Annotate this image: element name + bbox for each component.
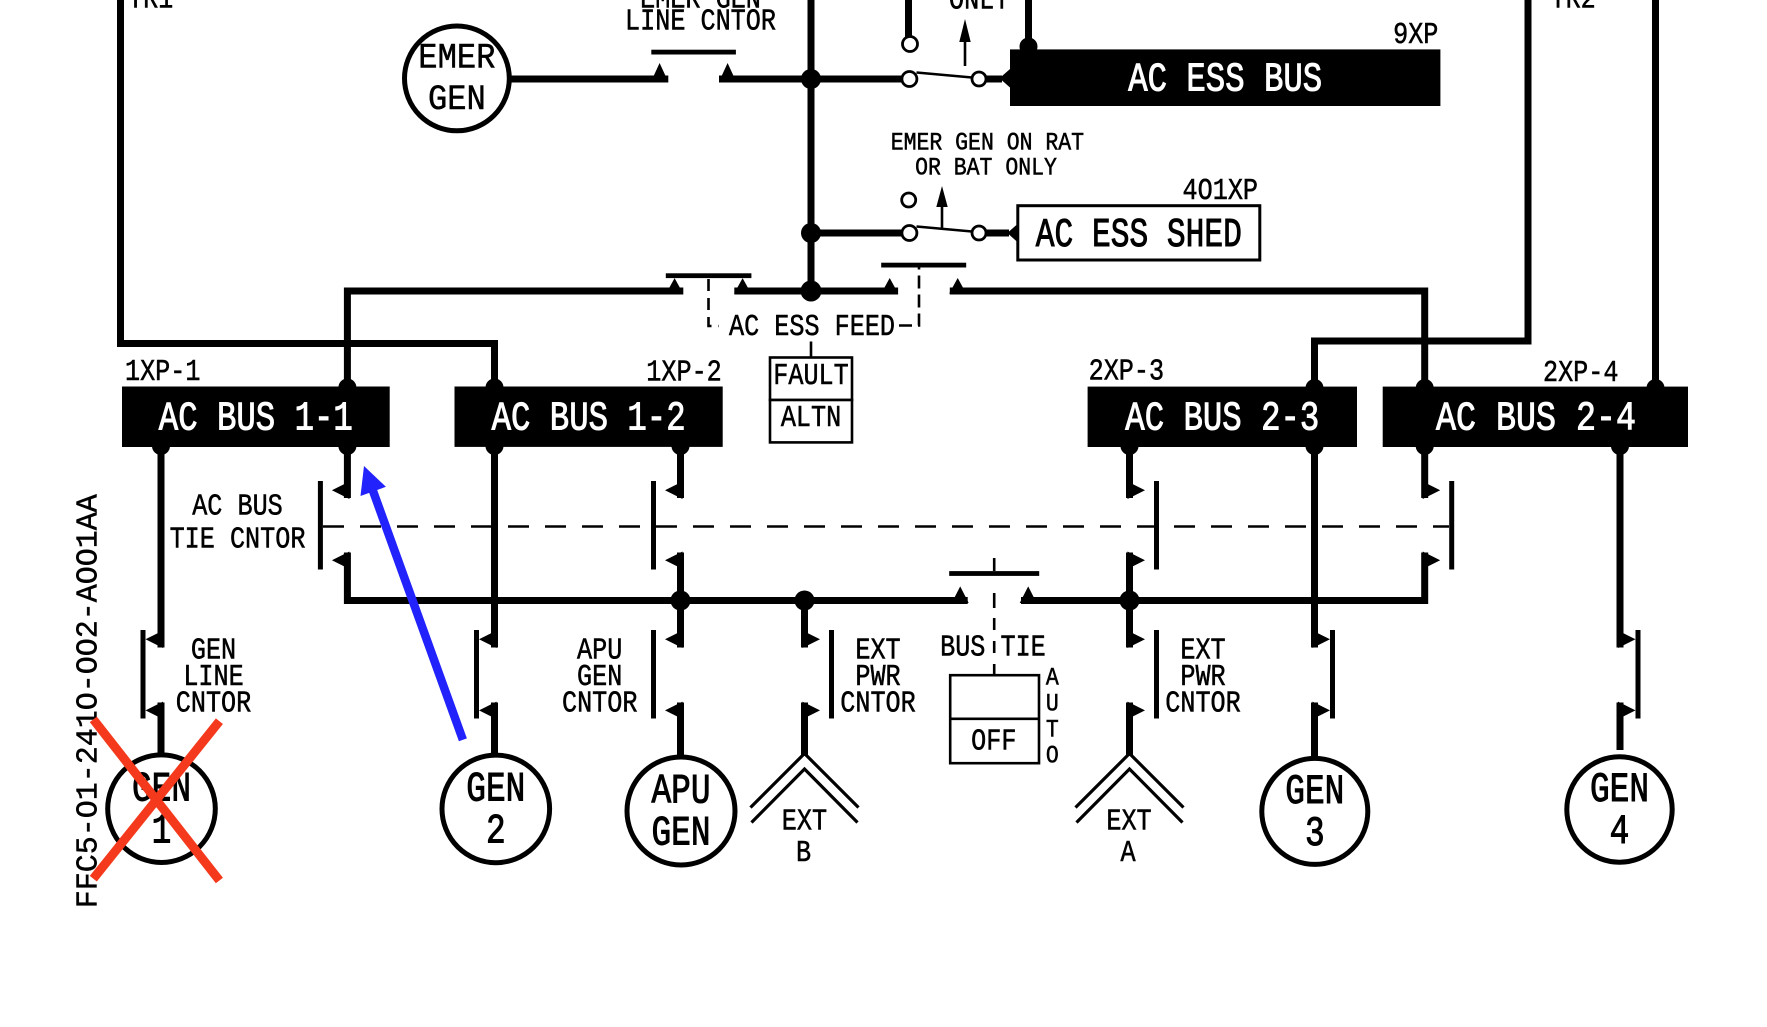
svg-text:4O1XP: 4O1XP	[1183, 175, 1258, 209]
dashed bus tie control line	[323, 525, 1449, 528]
dashed BUS TIE selector drop	[993, 558, 996, 674]
label document number (vertical)	[72, 493, 106, 908]
EXT PWR B receptacle	[751, 754, 859, 823]
label 2XP-4	[1543, 357, 1618, 391]
svg-text:1XP-1: 1XP-1	[125, 356, 200, 390]
node EMER GEN junction	[801, 69, 821, 89]
wire GEN 4 drop	[1617, 447, 1624, 750]
leader FAULT box	[810, 342, 813, 358]
label EXT PWR CNTOR A	[1165, 635, 1241, 722]
contactor AC ESS FEED ALTN (open)	[881, 263, 966, 294]
node bus bottom tap 347.4	[338, 437, 356, 455]
arrow switch direction up (BAT)	[959, 19, 970, 66]
wire switch to AC ESS BUS	[986, 76, 1002, 83]
annotation blue arrow to AC BUS TIE CNTOR 1	[361, 466, 463, 740]
label TR1	[128, 0, 173, 17]
label AUTO vertical	[1046, 664, 1059, 770]
node AC ESS SHED tap	[801, 223, 821, 243]
contactor AC BUS TIE CNTOR 3 (open)	[1128, 481, 1160, 570]
svg-text:EXT: EXT	[782, 805, 827, 839]
label BUS TIE	[940, 632, 1046, 666]
wire TR2 right feeder to AC BUS 2-4	[1652, 0, 1659, 390]
wire TR1 feeder to AC BUS 1-2	[121, 0, 495, 390]
generator APU GEN	[627, 757, 735, 865]
svg-text:1XP-2: 1XP-2	[646, 357, 721, 391]
contactor GEN 1 LINE CNTOR (closed)	[141, 630, 164, 719]
contactor GEN 4 line cntor (closed)	[1618, 630, 1641, 719]
wire stub upper contact	[905, 0, 912, 37]
label AC BUS TIE CNTOR	[170, 491, 306, 558]
svg-text:ALTN: ALTN	[781, 402, 841, 436]
svg-text:AC BUS 2-3: AC BUS 2-3	[1125, 396, 1319, 443]
contactor AC ESS FEED normal (closed)	[666, 273, 752, 293]
label EXT PWR CNTOR B	[840, 635, 916, 722]
node AC ESS BUS top tap	[1020, 38, 1038, 56]
contactor APU GEN CNTOR (open)	[651, 630, 683, 719]
svg-text:CNTOR: CNTOR	[562, 688, 638, 722]
wire AC BUS TIE CNTOR 2 stubs	[677, 447, 684, 601]
bus AC BUS 2-4	[1383, 387, 1688, 447]
svg-text:GEN: GEN	[428, 81, 486, 121]
svg-text:CNTOR: CNTOR	[840, 688, 916, 722]
wire EXT PWR B stubs	[801, 601, 808, 755]
dashed AC ESS FEED leader right	[899, 268, 919, 326]
wire AC BUS TIE CNTOR 4 top stub	[1421, 447, 1428, 498]
svg-text:4: 4	[1610, 810, 1630, 857]
wire switch to AC ESS SHED box	[986, 230, 1009, 237]
node bus bottom tap 1129.5	[1121, 437, 1139, 455]
wire EXT PWR A stubs	[1126, 601, 1133, 755]
svg-text:2XP-4: 2XP-4	[1543, 357, 1618, 391]
svg-text:BUS TIE: BUS TIE	[940, 632, 1046, 666]
bus AC BUS 2-3	[1088, 387, 1357, 447]
svg-text:AC BUS 1-1: AC BUS 1-1	[159, 396, 353, 443]
svg-text:CNTOR: CNTOR	[1165, 688, 1241, 722]
label AC ESS FEED	[729, 311, 895, 345]
svg-text:AC ESS SHED: AC ESS SHED	[1036, 213, 1242, 260]
generator EMER GEN	[405, 26, 510, 131]
svg-text:B: B	[796, 837, 811, 871]
label EMER GEN LINE CNTOR	[625, 0, 776, 40]
label EXT A	[1106, 805, 1151, 870]
svg-text:GEN: GEN	[651, 811, 710, 858]
wire EMER GEN output	[508, 76, 668, 83]
wire bus tie left segment	[347, 553, 967, 601]
node bus bottom tap 494.5	[486, 437, 504, 455]
svg-text:2XP-3: 2XP-3	[1089, 356, 1164, 390]
annotation red X over GEN 1	[93, 719, 219, 880]
node bus top tap 347.4	[338, 379, 356, 397]
wire AC BUS TIE CNTOR 1 top stub	[344, 447, 351, 498]
node AC ESS FEED junction	[801, 281, 822, 302]
contactor BUS TIE (open)	[949, 571, 1039, 603]
wire ALTN feed to AC BUS 2-4	[950, 291, 1425, 390]
generator GEN 2	[442, 755, 550, 863]
contactor GEN 2 line cntor (closed)	[474, 630, 497, 719]
generator GEN 1	[108, 755, 216, 863]
switch EMER GEN on BAT (contacts)	[902, 37, 986, 87]
generator GEN 4	[1567, 757, 1672, 862]
wire AC ESS FEED to AC BUS 1-1	[347, 291, 683, 390]
label 2XP-3	[1089, 356, 1164, 390]
arrow into AC ESS BUS	[1000, 69, 1011, 88]
svg-text:GEN: GEN	[466, 767, 525, 814]
contactor AC BUS TIE CNTOR 1 (open)	[318, 481, 350, 570]
wire AC BUS TIE CNTOR 3 stubs	[1126, 447, 1133, 601]
label TR2	[1551, 0, 1596, 17]
svg-text:EXT: EXT	[1106, 805, 1151, 839]
wire APU GEN stubs	[677, 601, 684, 757]
contactor GEN 3 line cntor (closed)	[1313, 630, 1336, 719]
svg-text:ONLY: ONLY	[949, 0, 1010, 18]
svg-text:EMER: EMER	[418, 39, 495, 79]
node bus bottom tap 680.5	[672, 437, 690, 455]
box BUS TIE selector	[950, 675, 1039, 763]
contactor AC BUS TIE CNTOR 2 (open)	[651, 481, 683, 570]
box FAULT	[770, 358, 852, 401]
svg-text:T: T	[1046, 716, 1059, 744]
node bus bottom tap 1620	[1611, 437, 1629, 455]
node bus tie EXT B tap	[795, 591, 815, 611]
label GEN LINE CNTOR	[176, 635, 252, 722]
node bus top tap 1655.5	[1647, 379, 1665, 397]
label EXT B	[782, 805, 827, 870]
svg-text:FFC5-O1-241O-OO2-AOO1AA: FFC5-O1-241O-OO2-AOO1AA	[72, 493, 106, 908]
label EMER GEN ON RAT OR BAT ONLY	[891, 129, 1084, 182]
bus AC ESS SHED	[1018, 206, 1260, 260]
svg-text:AC BUS 2-4: AC BUS 2-4	[1436, 396, 1636, 443]
contactor EMER GEN LINE CNTOR (open)	[651, 50, 736, 82]
svg-text:U: U	[1046, 690, 1059, 718]
svg-text:FAULT: FAULT	[773, 360, 848, 394]
svg-text:OFF: OFF	[971, 726, 1016, 760]
svg-text:AC BUS 1-2: AC BUS 1-2	[492, 396, 686, 443]
wire GEN 3 drop	[1311, 447, 1318, 756]
wire main ESS vertical from TR area	[808, 0, 815, 291]
node bus bottom tap 1314.5	[1306, 437, 1324, 455]
EXT PWR A receptacle	[1076, 754, 1184, 823]
wire GEN 2 drop	[491, 447, 498, 754]
svg-text:EMER GEN ON RAT: EMER GEN ON RAT	[891, 129, 1084, 157]
svg-text:2: 2	[486, 809, 506, 856]
wire TR2 feeder to AC BUS 2-3	[1315, 0, 1529, 390]
svg-text:GEN: GEN	[1590, 768, 1649, 815]
generator GEN 3	[1262, 758, 1368, 864]
label 1XP-1	[125, 356, 200, 390]
wire EMER GEN line cntor to node	[719, 76, 902, 83]
label ONLY (clipped)	[949, 0, 1010, 18]
dashed AC ESS FEED leader left	[709, 279, 720, 326]
svg-text:3: 3	[1305, 812, 1325, 859]
svg-text:TR2: TR2	[1551, 0, 1596, 17]
svg-text:AC ESS FEED: AC ESS FEED	[729, 311, 895, 345]
contactor EXT PWR CNTOR B (open)	[803, 630, 835, 719]
wire between AC ESS FEED contactors	[734, 288, 898, 295]
svg-text:A: A	[1120, 837, 1135, 871]
box ALTN	[770, 400, 852, 442]
node bus top tap 1314.5	[1306, 379, 1324, 397]
svg-text:GEN: GEN	[1285, 770, 1344, 817]
svg-text:AC ESS BUS: AC ESS BUS	[1128, 57, 1322, 104]
switch AC ESS SHED feed (contacts)	[902, 193, 986, 241]
node bus top tap 1424.7	[1416, 379, 1434, 397]
svg-text:CNTOR: CNTOR	[176, 688, 252, 722]
wire stub to AC ESS BUS top	[1025, 0, 1032, 47]
svg-text:TR1: TR1	[128, 0, 173, 17]
contactor EXT PWR CNTOR A (open)	[1128, 630, 1160, 719]
node bus tie EXT A tap	[1120, 591, 1140, 611]
node bus top tap 494.5	[486, 379, 504, 397]
wire bus tie right segment	[1021, 553, 1425, 601]
bus AC BUS 1-1	[122, 387, 390, 448]
wire node to AC ESS SHED switch	[811, 230, 902, 237]
svg-text:TIE CNTOR: TIE CNTOR	[170, 524, 306, 558]
arrow into AC ESS SHED	[1007, 224, 1018, 243]
svg-text:A: A	[1046, 664, 1059, 692]
node bus tie APU tap	[671, 591, 691, 611]
label 1XP-2	[646, 357, 721, 391]
svg-text:O: O	[1046, 742, 1059, 770]
svg-text:OR BAT ONLY: OR BAT ONLY	[915, 154, 1057, 182]
label 401XP	[1183, 175, 1258, 209]
svg-text:APU: APU	[651, 769, 710, 816]
svg-text:AC BUS: AC BUS	[192, 491, 283, 525]
svg-text:LINE CNTOR: LINE CNTOR	[625, 6, 776, 40]
node bus bottom tap 161	[152, 437, 170, 455]
contactor AC BUS TIE CNTOR 4 (open)	[1423, 481, 1455, 570]
bus AC BUS 1-2	[455, 387, 723, 447]
label 9XP	[1393, 19, 1438, 53]
svg-text:9XP: 9XP	[1393, 19, 1438, 53]
wire GEN 1 drop	[158, 447, 165, 754]
node bus bottom tap 1424.7	[1416, 437, 1434, 455]
arrow switch direction up (SHED)	[936, 186, 947, 228]
bus AC ESS BUS	[1010, 49, 1440, 106]
label APU GEN CNTOR	[562, 635, 638, 722]
